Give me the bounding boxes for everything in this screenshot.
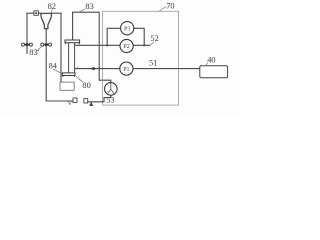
air inlet pipe to pump xyxy=(88,95,111,102)
hopper outlet pipe 84 down to receiver xyxy=(51,13,61,82)
junction node riser/51 xyxy=(98,68,100,70)
flow arrow on line 51 xyxy=(90,67,95,71)
svg-text:P2: P2 xyxy=(123,44,129,50)
stub tick at column tap xyxy=(77,67,79,70)
junction node left xyxy=(106,44,108,46)
valve 83' right (below hopper) xyxy=(41,43,52,46)
receiver box below reactor xyxy=(60,82,74,90)
svg-text:V: V xyxy=(68,100,73,107)
pump 53 xyxy=(105,83,118,96)
junction node right xyxy=(143,44,145,46)
svg-text:70: 70 xyxy=(166,2,174,11)
label 40 xyxy=(205,56,215,66)
air terminal box A xyxy=(84,99,88,103)
air arrow xyxy=(89,102,93,106)
label 83 xyxy=(79,2,94,12)
apparatus box 40 xyxy=(200,66,228,78)
wire feed loop left vertical and top run xyxy=(27,13,41,54)
reactor 80 bottom flange xyxy=(62,73,75,77)
gas line 51 to box 40 xyxy=(75,68,200,70)
feeder box on feed line xyxy=(34,11,39,15)
svg-text:83: 83 xyxy=(85,2,93,11)
vent terminal box V xyxy=(73,98,77,103)
valve 83' left (on line x=27) xyxy=(22,43,33,46)
reactor 80 top flange xyxy=(65,40,80,44)
svg-text:82: 82 xyxy=(48,2,56,11)
label 84 xyxy=(49,61,61,73)
gauge P2 xyxy=(120,39,133,52)
label 82 xyxy=(48,2,56,13)
reactor 80 column body xyxy=(69,43,75,73)
P3 bypass loop xyxy=(107,28,144,45)
enclosure box 70 xyxy=(103,11,179,105)
svg-text:53: 53 xyxy=(106,96,114,105)
reactor riser pipe 83 (column top to gauges) xyxy=(73,12,111,82)
svg-text:80: 80 xyxy=(82,81,90,90)
svg-text:83′: 83′ xyxy=(29,48,39,57)
gauge P1 xyxy=(120,62,133,75)
label 70 xyxy=(159,2,175,12)
valve drop line from hopper xyxy=(46,29,73,101)
label 80 xyxy=(76,76,91,90)
gauge P3 xyxy=(121,22,134,35)
gauge line 52 from column xyxy=(75,44,151,46)
svg-text:P1: P1 xyxy=(123,67,129,73)
hopper 82 xyxy=(41,13,51,28)
svg-text:51: 51 xyxy=(149,59,157,68)
svg-text:P3: P3 xyxy=(124,26,130,32)
label 83' xyxy=(29,47,41,57)
svg-text:40: 40 xyxy=(207,56,215,65)
label 52 with leader hook xyxy=(150,34,159,45)
svg-text:52: 52 xyxy=(150,34,158,43)
